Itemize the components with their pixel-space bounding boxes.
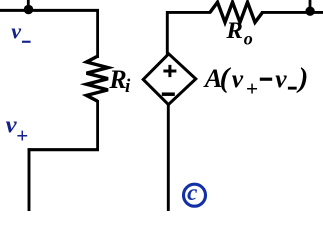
svg-text:v: v bbox=[232, 64, 244, 93]
terminal label v- bbox=[11, 19, 30, 44]
resistor Ro zigzag bbox=[210, 2, 263, 22]
label Ri bbox=[108, 65, 131, 97]
label Ro bbox=[225, 18, 252, 48]
svg-text:i: i bbox=[125, 76, 131, 97]
wire: source bottom lead bbox=[167, 103, 170, 211]
svg-text:R: R bbox=[108, 65, 126, 94]
svg-text:+: + bbox=[246, 77, 258, 101]
svg-text:v: v bbox=[11, 19, 21, 44]
wire: stub above inverting node bbox=[27, 0, 30, 9]
wire: stub above output node bbox=[309, 0, 312, 8]
svg-text:v: v bbox=[275, 64, 287, 93]
resistor Ri zigzag bbox=[87, 56, 109, 101]
dependent source: diamond outline bbox=[143, 54, 196, 105]
svg-text:c: c bbox=[187, 180, 197, 205]
node dot: output terminal bbox=[305, 7, 314, 16]
svg-text:R: R bbox=[225, 18, 243, 44]
+ polarity mark inside source bbox=[163, 65, 176, 77]
wire: non-inverting bottom horizontal bbox=[28, 148, 99, 151]
wire: drop from top wire to Ri bbox=[96, 9, 99, 58]
copyright mark: circled c bbox=[184, 180, 206, 206]
wire: Ro to output terminal bbox=[261, 11, 323, 14]
svg-text:(: ( bbox=[220, 62, 232, 94]
wire: Ri bottom lead bbox=[96, 100, 99, 151]
wire: inverting input top horizontal bbox=[0, 9, 99, 12]
terminal label v+ bbox=[6, 111, 29, 147]
- polarity mark inside source bbox=[162, 92, 175, 96]
svg-text:o: o bbox=[244, 29, 253, 49]
wire: non-inverting vertical lead bbox=[28, 148, 31, 211]
node dot: inverting input terminal bbox=[24, 5, 34, 15]
svg-text:+: + bbox=[16, 123, 28, 147]
wire: source top lead and corner to Ro bbox=[167, 12, 211, 55]
svg-text:): ) bbox=[296, 62, 309, 94]
label A(v+ - v-) bbox=[203, 62, 309, 101]
